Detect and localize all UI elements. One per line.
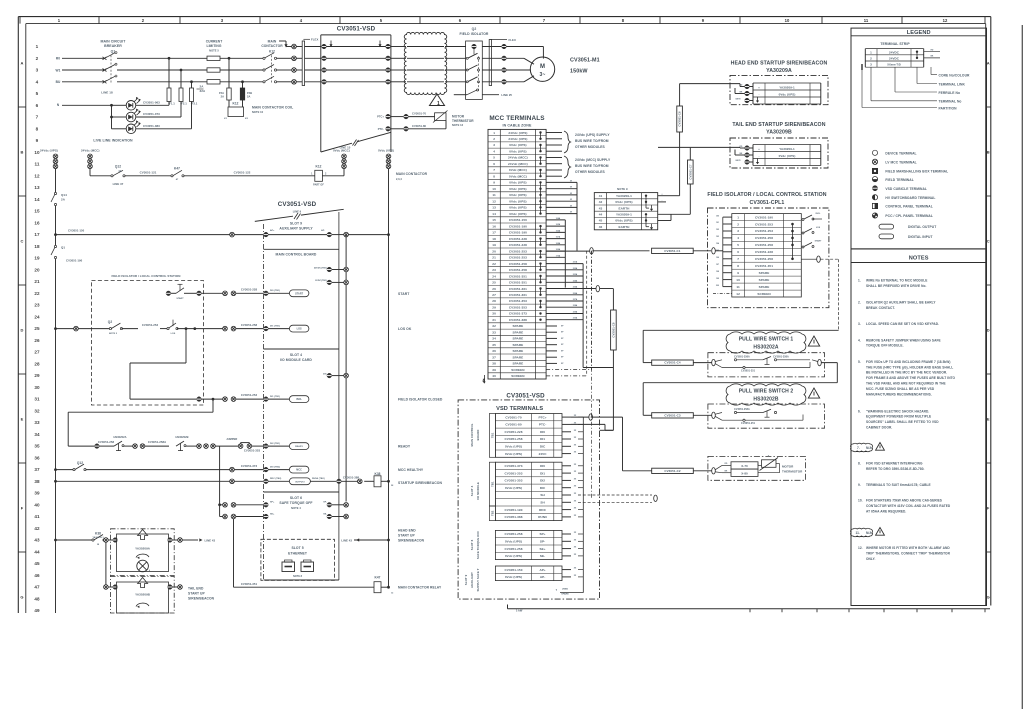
scan page edge right <box>1021 25 1023 709</box>
thermistor field box <box>708 456 806 480</box>
svg-text:CV3051-190: CV3051-190 <box>509 224 527 228</box>
svg-text:43: 43 <box>34 538 40 543</box>
head end siren box YA30209A <box>108 539 113 541</box>
svg-text:CV3051-M1: CV3051-M1 <box>570 58 600 64</box>
svg-text:START UP: START UP <box>398 534 416 538</box>
svg-text:SP-: SP- <box>323 502 327 504</box>
svg-text:197: 197 <box>716 264 719 266</box>
svg-text:CV3051-258: CV3051-258 <box>241 323 258 327</box>
CPL1 cable entry <box>592 250 649 252</box>
svg-text:SCREEN: SCREEN <box>757 292 771 296</box>
svg-text:34: 34 <box>34 432 40 437</box>
svg-text:19: 19 <box>34 256 40 261</box>
VSD terminals group slot4 <box>495 462 562 520</box>
thermistor symbol <box>408 116 434 118</box>
svg-text:DI0 (TB1): DI0 (TB1) <box>270 290 280 292</box>
terminal 41-46 link dots <box>645 195 647 197</box>
svg-text:MCC TERMINALS: MCC TERMINALS <box>489 115 545 122</box>
svg-text:3~: 3~ <box>540 72 546 78</box>
svg-text:SH: SH <box>540 501 545 505</box>
MCC terminal link dots <box>539 131 541 133</box>
svg-text:CV3051-253: CV3051-253 <box>755 229 773 233</box>
svg-text:1: 1 <box>737 215 739 219</box>
svg-text:38: 38 <box>34 479 40 484</box>
svg-text:39: 39 <box>34 491 40 496</box>
svg-text:CV3051-063: CV3051-063 <box>143 100 160 104</box>
svg-text:14: 14 <box>34 197 40 202</box>
wires to motor <box>506 57 524 59</box>
svg-text:CV3051-258A: CV3051-258A <box>734 356 750 359</box>
svg-text:CV3051-C7: CV3051-C7 <box>688 164 692 180</box>
svg-text:MOTOR: MOTOR <box>782 465 794 469</box>
svg-text:CV3051-C8: CV3051-C8 <box>611 322 615 338</box>
svg-text:K47: K47 <box>374 576 380 580</box>
0Vdc UPS right rail <box>388 169 390 588</box>
CPL1 dash box <box>708 208 829 308</box>
svg-text:44: 44 <box>34 549 40 554</box>
svg-text:15: 15 <box>492 218 496 222</box>
svg-text:12: 12 <box>943 18 948 23</box>
svg-text:READY: READY <box>295 445 303 448</box>
svg-text:30: 30 <box>492 312 496 316</box>
svg-text:6: 6 <box>493 162 495 166</box>
svg-text:9.: 9. <box>858 483 861 487</box>
svg-text:6: 6 <box>36 103 39 108</box>
thermistor cable C2 <box>623 470 652 472</box>
svg-text:MCC: MCC <box>296 469 302 472</box>
svg-text:24: 24 <box>34 314 40 319</box>
svg-text:12: 12 <box>34 173 40 178</box>
svg-text:EARTH: EARTH <box>619 225 631 229</box>
svg-text:START: START <box>398 292 410 296</box>
legend symbol VSD cubicle terminal <box>872 186 877 191</box>
head end siren box <box>730 75 828 104</box>
MCC stub wires rows 15-21 <box>546 219 565 221</box>
svg-text:5: 5 <box>493 156 495 160</box>
svg-text:K12: K12 <box>269 50 275 54</box>
top ruler ticks <box>19 17 21 24</box>
flex boundary bus bar left <box>302 41 304 86</box>
svg-text:B: B <box>987 150 990 155</box>
junction dots to contactor coil <box>228 57 231 60</box>
svg-text:SP+: SP+ <box>270 502 275 504</box>
svg-text:ONLY.: ONLY. <box>866 557 876 561</box>
svg-text:BU: BU <box>56 80 61 84</box>
wire drops to fuses F1.1 F2.1 F3.1 <box>168 58 170 88</box>
wires VSD output to choke <box>390 46 406 48</box>
svg-text:37: 37 <box>34 467 40 472</box>
svg-text:LINE 9: LINE 9 <box>293 210 302 214</box>
svg-text:CV3051-228: CV3051-228 <box>241 288 258 292</box>
contact Q12 row 37 <box>54 468 57 471</box>
indicator lamp CV3051-063 <box>112 104 127 106</box>
svg-text:CV3051-258: CV3051-258 <box>505 547 523 551</box>
svg-text:36: 36 <box>34 455 40 460</box>
wires isolator to field terminals <box>482 46 502 48</box>
svg-text:165A: 165A <box>556 223 561 226</box>
svg-text:5: 5 <box>36 91 39 96</box>
svg-text:GNYE: GNYE <box>735 160 741 162</box>
svg-text:0Vdc (UPS): 0Vdc (UPS) <box>509 181 526 185</box>
svg-text:FIELD ISOLATOR / LOCAL CONTROL: FIELD ISOLATOR / LOCAL CONTROL STATION <box>112 274 181 278</box>
svg-text:CV3051-253: CV3051-253 <box>241 393 258 397</box>
svg-text:R0: R0 <box>56 57 60 61</box>
slot 5 ethernet box <box>264 579 339 581</box>
svg-text:CV3051-190: CV3051-190 <box>66 259 83 263</box>
svg-text:AP-: AP- <box>540 575 546 579</box>
motor M1 earth wire <box>506 46 543 48</box>
svg-text:USED: USED <box>562 589 569 591</box>
fuse F5B <box>240 88 244 100</box>
legend symbol PCC CPL panel terminal <box>872 213 877 218</box>
svg-text:CV3051-373: CV3051-373 <box>241 464 258 468</box>
LCS internal link rows 25-31 <box>185 329 187 363</box>
24V MCC rail drop <box>89 169 91 176</box>
internal phase wires <box>326 57 386 59</box>
svg-text:CV3051-C2: CV3051-C2 <box>664 469 680 473</box>
svg-text:SAFE TORQUE OFF: SAFE TORQUE OFF <box>476 531 480 559</box>
svg-text:SPARE: SPARE <box>759 278 770 282</box>
svg-text:BREAKER: BREAKER <box>104 44 122 48</box>
svg-text:SP+: SP+ <box>540 532 546 536</box>
svg-text:SLOT 9: SLOT 9 <box>464 574 468 585</box>
svg-text:OUTPUT2: OUTPUT2 <box>295 481 305 483</box>
svg-text:SPARE: SPARE <box>513 349 524 353</box>
fuse F1.1 <box>167 88 171 102</box>
legend symbol device terminal <box>872 150 877 155</box>
svg-text:24Vdc (MCC): 24Vdc (MCC) <box>508 156 528 160</box>
CPL1 start switch <box>803 243 812 248</box>
head siren riser <box>679 84 681 106</box>
svg-text:LOS: LOS <box>171 333 176 335</box>
svg-text:11: 11 <box>34 162 39 167</box>
svg-text:FIELD ISOLATOR / LOCAL CONTROL: FIELD ISOLATOR / LOCAL CONTROL STATION <box>707 192 826 198</box>
svg-text:CV3051-258A: CV3051-258A <box>148 440 166 444</box>
svg-text:19: 19 <box>492 243 496 247</box>
wire row 22 to VSD DI0 <box>201 292 223 294</box>
wire phase B <box>62 81 105 83</box>
svg-text:CV3051-228: CV3051-228 <box>755 250 773 254</box>
svg-text:Q1: Q1 <box>61 246 65 250</box>
svg-text:LV MCC TERMINAL: LV MCC TERMINAL <box>885 161 916 165</box>
svg-text:CV3051-190: CV3051-190 <box>755 215 773 219</box>
svg-text:DEVICE TERMINAL: DEVICE TERMINAL <box>885 152 916 156</box>
svg-text:SE-: SE- <box>323 513 327 515</box>
screen dashed drop <box>586 251 588 376</box>
svg-text:VSD TERMINALS: VSD TERMINALS <box>496 406 543 412</box>
svg-text:CV3051-258: CV3051-258 <box>505 532 523 536</box>
Q12 wire row 12 <box>90 175 112 177</box>
svg-text:191: 191 <box>716 222 719 224</box>
svg-text:47: 47 <box>34 585 40 590</box>
siren A right terminals <box>168 538 173 543</box>
output choke cloud <box>404 32 447 94</box>
svg-text:W1: W1 <box>56 68 61 72</box>
VSD terminals group main control board <box>495 414 562 458</box>
svg-text:25: 25 <box>34 326 40 331</box>
svg-text:DIGITAL OUTPUT: DIGITAL OUTPUT <box>908 225 936 229</box>
pull wire switch 2 cloud <box>726 384 806 405</box>
svg-text:0VDC(TB1): 0VDC(TB1) <box>315 280 327 282</box>
wire row 31 field isolator closed <box>130 398 197 400</box>
svg-text:Q2: Q2 <box>108 320 113 324</box>
svg-text:12: 12 <box>736 292 740 296</box>
svg-text:1-kW: 1-kW <box>516 609 523 613</box>
isolator aux contact line 25 <box>454 94 467 96</box>
control block top slash <box>255 216 293 221</box>
PTC wires exit <box>571 416 589 418</box>
MCC terminals table grid <box>488 129 546 379</box>
svg-text:CV3051-190: CV3051-190 <box>509 231 527 235</box>
svg-text:PULL WIRE SWITCH 2: PULL WIRE SWITCH 2 <box>739 389 794 395</box>
svg-text:LINE 18: LINE 18 <box>101 91 113 95</box>
svg-text:4: 4 <box>36 79 39 84</box>
svg-text:3: 3 <box>493 143 495 147</box>
svg-text:START: START <box>815 240 822 243</box>
PWS2 box <box>708 404 825 428</box>
svg-text:GNYE: GNYE <box>735 99 741 101</box>
svg-text:SE+: SE+ <box>540 547 546 551</box>
earth symbols rows 43 46 <box>651 205 653 209</box>
svg-text:YA30209B: YA30209B <box>766 130 792 136</box>
main contactor relay wire row 47 <box>234 586 375 588</box>
svg-text:X-70: X-70 <box>741 464 748 468</box>
warning triangle note 1 <box>430 94 445 106</box>
svg-text:THE VSD PANEL AND ARE NOT REQU: THE VSD PANEL AND ARE NOT REQUIRED IN TH… <box>866 382 946 386</box>
control block edges <box>263 224 265 580</box>
svg-text:K12: K12 <box>315 165 321 169</box>
svg-text:"WARNING ELECTRIC SHOCK HAZARD: "WARNING ELECTRIC SHOCK HAZARD. <box>866 409 929 413</box>
wires 41-42 to head siren cable <box>658 195 666 197</box>
svg-text:SH: SH <box>540 493 545 497</box>
svg-text:SIREN/BEACON: SIREN/BEACON <box>398 539 425 543</box>
svg-text:AUXILIARY SUPPLY: AUXILIARY SUPPLY <box>279 227 313 231</box>
svg-text:21: 21 <box>492 256 496 260</box>
svg-text:FERRULE No: FERRULE No <box>939 91 961 95</box>
svg-text:CV3051-258: CV3051-258 <box>505 437 523 441</box>
svg-text:DI1 (TB1): DI1 (TB1) <box>270 396 280 398</box>
svg-text:REMOVE SAFETY JUMPER WHEN USIN: REMOVE SAFETY JUMPER WHEN USING SAFE <box>866 338 941 342</box>
svg-text:0Vdc (UPS): 0Vdc (UPS) <box>615 219 632 223</box>
svg-text:CV3051-253: CV3051-253 <box>509 256 527 260</box>
svg-text:A: A <box>21 61 24 66</box>
svg-text:7: 7 <box>36 115 39 120</box>
svg-text:REFER TO DRG 3590-SS36-E-8D-78: REFER TO DRG 3590-SS36-E-8D-780. <box>866 467 925 471</box>
bus wire brackets rows 1-4 <box>546 132 562 134</box>
svg-text:TERMINAL LINK: TERMINAL LINK <box>939 82 966 86</box>
svg-text:Q14: Q14 <box>61 193 67 197</box>
svg-text:10: 10 <box>785 18 790 23</box>
svg-text:CV3051-351: CV3051-351 <box>509 281 527 285</box>
svg-text:FOR VSD ETHERNET INTERFACING: FOR VSD ETHERNET INTERFACING <box>866 462 923 466</box>
left 24V UPS rail <box>55 169 57 193</box>
svg-text:43: 43 <box>599 206 603 210</box>
svg-text:CV3051-351: CV3051-351 <box>509 274 527 278</box>
junction dots to fuse drops <box>168 57 171 60</box>
svg-text:32: 32 <box>492 324 496 328</box>
svg-text:24VDC: 24VDC <box>889 50 900 54</box>
MCC row 20 wire to CPL1 <box>546 250 590 252</box>
svg-text:LIMITING: LIMITING <box>207 44 222 48</box>
svg-text:4.: 4. <box>858 338 861 342</box>
svg-text:PTC-: PTC- <box>378 127 384 131</box>
svg-text:AT 65AA ARE REQUIRED.: AT 65AA ARE REQUIRED. <box>866 509 906 513</box>
svg-text:Q12: Q12 <box>77 461 83 465</box>
svg-text:9: 9 <box>36 138 39 143</box>
svg-text:NOTE 8: NOTE 8 <box>293 575 303 578</box>
svg-text:MAIN CIRCUIT: MAIN CIRCUIT <box>101 40 127 44</box>
svg-text:2.: 2. <box>858 300 861 304</box>
svg-text:MAIN: MAIN <box>268 40 277 44</box>
PWS2 lower loop <box>722 419 757 421</box>
svg-text:SPARE: SPARE <box>513 343 524 347</box>
svg-text:6.: 6. <box>858 409 861 413</box>
legend symbol HV switchboard terminal <box>872 195 877 200</box>
head end siren text right <box>354 539 389 541</box>
tail siren riser <box>689 147 691 160</box>
svg-text:3: 3 <box>737 229 739 233</box>
svg-text:170A: 170A <box>556 254 561 257</box>
svg-text:2A: 2A <box>247 95 250 99</box>
svg-text:IN CABLE ZONE: IN CABLE ZONE <box>503 124 532 128</box>
svg-text:11.: 11. <box>856 531 860 535</box>
neutral drop <box>111 105 113 129</box>
svg-text:EARTH: EARTH <box>619 206 631 210</box>
svg-text:28: 28 <box>492 299 496 303</box>
svg-text:SPARE: SPARE <box>513 331 524 335</box>
VSD terminals right stubs <box>562 416 571 418</box>
rj45 ports <box>282 562 295 572</box>
legend symbol LV MCC terminal <box>872 159 877 164</box>
svg-text:F5A: F5A <box>219 91 224 95</box>
svg-text:CONTROL PANEL TERMINAL: CONTROL PANEL TERMINAL <box>885 205 932 209</box>
svg-text:CV3051-VSD: CV3051-VSD <box>506 393 545 400</box>
svg-text:CV3051-228: CV3051-228 <box>509 237 527 241</box>
svg-text:NOTE 10: NOTE 10 <box>252 110 264 114</box>
VSD terminals group slot6 <box>495 530 562 559</box>
svg-text:10: 10 <box>492 187 496 191</box>
fuse F3.1 <box>190 88 194 102</box>
svg-text:226A: 226A <box>573 292 578 295</box>
svg-text:SE-: SE- <box>540 554 545 558</box>
second sheet top edge <box>508 608 991 610</box>
svg-text:0Vdc (UPS): 0Vdc (UPS) <box>505 445 522 449</box>
svg-text:40: 40 <box>34 502 40 507</box>
motor CV3051-M1 <box>530 57 554 81</box>
wire phase R <box>62 57 105 59</box>
svg-text:MAIN CONTACTOR COIL: MAIN CONTACTOR COIL <box>252 106 293 110</box>
svg-text:PCC / CPL PANEL TERMINAL: PCC / CPL PANEL TERMINAL <box>885 214 933 218</box>
svg-text:222A: 222A <box>573 267 578 270</box>
svg-text:45: 45 <box>599 219 603 223</box>
svg-text:CV3051-258: CV3051-258 <box>509 262 527 266</box>
svg-text:+: + <box>758 147 760 151</box>
svg-text:0Vdc (MCC): 0Vdc (MCC) <box>509 168 527 172</box>
indicator lamp CV3051-083 <box>112 128 127 130</box>
svg-text:SPARE: SPARE <box>513 362 524 366</box>
legend symbol field terminal <box>872 177 877 182</box>
svg-text:FOR VSDs UP TO AND INCLUDING F: FOR VSDs UP TO AND INCLUDING FRAME 7 (18… <box>866 360 950 364</box>
svg-text:38: 38 <box>492 362 496 366</box>
svg-text:8.: 8. <box>858 462 861 466</box>
svg-text:27: 27 <box>34 350 40 355</box>
svg-text:ETHERNET: ETHERNET <box>288 552 308 556</box>
0Vdc MCC rail drop <box>343 169 345 176</box>
jumper drop to STO <box>219 446 221 516</box>
svg-text:24VC: 24VC <box>539 452 548 456</box>
X-70 X-80 terminal blocks <box>731 462 758 469</box>
svg-text:42: 42 <box>34 526 40 531</box>
svg-text:OTHER MODULES: OTHER MODULES <box>575 145 606 149</box>
svg-text:DIGITAL INPUT: DIGITAL INPUT <box>908 235 933 239</box>
svg-text:FIELD TERMINAL: FIELD TERMINAL <box>885 178 913 182</box>
svg-text:RDC: RDC <box>539 508 547 512</box>
svg-text:MAIN CONTACTOR: MAIN CONTACTOR <box>396 172 428 176</box>
svg-text:27: 27 <box>492 293 496 297</box>
PWS2 internals <box>712 412 716 418</box>
svg-text:SHALL BE PREFIXED WITH DRIVE N: SHALL BE PREFIXED WITH DRIVE No. <box>866 284 926 288</box>
svg-text:32: 32 <box>34 408 40 413</box>
svg-text:42: 42 <box>599 200 603 204</box>
svg-text:BUS WIRE TO/FROM: BUS WIRE TO/FROM <box>575 139 609 143</box>
svg-text:THERMISTOR: THERMISTOR <box>782 470 803 474</box>
beacon arc A <box>136 554 149 557</box>
isolator Q2 contact row 25 <box>54 327 57 330</box>
svg-text:17: 17 <box>492 231 496 235</box>
legend callouts <box>930 67 932 75</box>
svg-text:18: 18 <box>492 237 496 241</box>
svg-text:YA30209-1: YA30209-1 <box>616 213 632 217</box>
svg-text:1: 1 <box>870 50 872 54</box>
svg-text:CV3051-258A: CV3051-258A <box>734 408 750 411</box>
svg-text:21: 21 <box>34 279 40 284</box>
PWS1 internals <box>712 359 716 365</box>
MCC table earth arrow bottom <box>482 375 484 381</box>
svg-text:221A: 221A <box>573 261 578 264</box>
svg-text:FLEX: FLEX <box>509 38 516 42</box>
svg-text:224A: 224A <box>573 279 578 282</box>
svg-text:D: D <box>21 328 24 333</box>
VSD terminals group slot9 <box>495 566 562 581</box>
svg-text:CV3051-70: CV3051-70 <box>505 415 521 419</box>
svg-text:10.: 10. <box>858 499 863 503</box>
svg-text:A: A <box>987 61 990 66</box>
svg-text:13: 13 <box>34 185 40 190</box>
svg-text:40: 40 <box>492 374 496 378</box>
svg-text:MAIN CONTACTOR RELAY: MAIN CONTACTOR RELAY <box>398 586 442 590</box>
svg-text:NOTE 4: NOTE 4 <box>291 506 301 510</box>
svg-text:YA30209-1: YA30209-1 <box>616 194 632 198</box>
CPL1 switch dots <box>791 223 794 226</box>
thermistor cable routing <box>591 416 623 418</box>
svg-text:3: 3 <box>870 63 872 67</box>
svg-text:1: 1 <box>493 131 495 135</box>
svg-text:TB2: TB2 <box>490 510 494 516</box>
svg-text:0Vdc (MCC): 0Vdc (MCC) <box>333 149 350 153</box>
svg-text:LOCAL SPEED CAN BE SET ON VSD: LOCAL SPEED CAN BE SET ON VSD KEYPAD. <box>866 322 939 326</box>
svg-text:TORQUE OFF MODULE.: TORQUE OFF MODULE. <box>866 344 904 348</box>
VSD input terminals <box>322 44 327 49</box>
svg-text:K38: K38 <box>374 472 380 476</box>
svg-text:-: - <box>758 154 759 158</box>
svg-text:200: 200 <box>716 285 719 287</box>
svg-text:CV3051-361: CV3051-361 <box>509 287 527 291</box>
svg-text:166A: 166A <box>556 229 561 232</box>
svg-text:FIELD MARSHALLING BOX TERMINAL: FIELD MARSHALLING BOX TERMINAL <box>885 170 948 174</box>
earth drop arrow main contactor <box>279 40 286 42</box>
tail end siren table <box>753 144 821 146</box>
lamp return wires <box>136 104 169 106</box>
